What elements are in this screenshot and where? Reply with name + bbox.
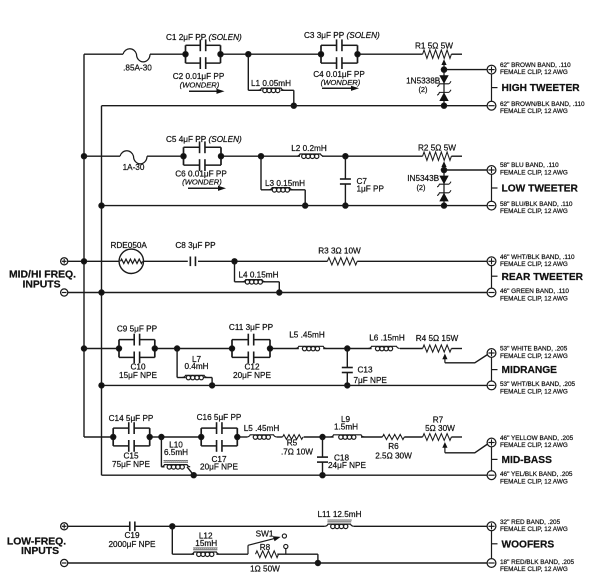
node C18 bottom — [320, 473, 325, 478]
wire row4 - line — [102, 384, 488, 386]
svg-text:24μF NPE: 24μF NPE — [328, 461, 366, 470]
wire R1 wiper to + terminal — [444, 69, 488, 71]
terminal - midrange — [487, 381, 496, 390]
svg-text:7μF NPE: 7μF NPE — [354, 376, 388, 385]
svg-text:46" YEL/BLK BAND, .205: 46" YEL/BLK BAND, .205 — [500, 471, 573, 478]
svg-text:58" BLU/BLK BAND, .110: 58" BLU/BLK BAND, .110 — [500, 201, 573, 208]
svg-text:(2): (2) — [416, 183, 425, 192]
wire mid/hi + input — [68, 260, 120, 262]
svg-text:WOOFERS: WOOFERS — [502, 539, 555, 550]
wire row1 + line — [84, 53, 462, 55]
wire row3 C8 to R3 — [198, 260, 327, 262]
label rear tweeter wires + — [500, 254, 575, 268]
wire R2 wiper to + terminal — [444, 169, 488, 171]
inductor L7 0.4mH — [177, 349, 212, 386]
capacitor C19 2000uF NPE — [108, 522, 156, 549]
resistor R8 1ohm 50W — [250, 543, 318, 574]
label MID/HI FREQ. INPUTS — [9, 270, 76, 291]
node row2 C7 tap — [343, 154, 348, 159]
capacitor C11 3uF PP — [229, 323, 274, 363]
svg-text:46" WHT/BLK BAND, .110: 46" WHT/BLK BAND, .110 — [500, 254, 575, 261]
svg-text:L2 0.2mH: L2 0.2mH — [291, 144, 327, 153]
svg-text:C2 0.01μF PP: C2 0.01μF PP — [173, 72, 225, 81]
capacitor C15 75uF NPE — [112, 451, 150, 468]
capacitor C7 1uF PP — [340, 156, 385, 205]
resistor R6 2.5ohm 30W — [375, 434, 412, 460]
resistor R2 5ohm 5W — [418, 143, 456, 160]
wire R4 wiper to + terminal — [445, 355, 488, 363]
inductor L1 0.05mH — [248, 54, 293, 105]
svg-text:R8: R8 — [260, 543, 271, 552]
lamp RDE050A — [110, 241, 147, 273]
svg-text:FEMALE CLIP, 12 AWG: FEMALE CLIP, 12 AWG — [500, 566, 568, 573]
node L1 bottom — [291, 103, 296, 108]
terminal + mid/hi input — [61, 258, 68, 265]
svg-text:R4 5Ω 15W: R4 5Ω 15W — [416, 334, 459, 343]
inductor L4 0.15mH — [235, 261, 280, 292]
svg-text:C8 3μF PP: C8 3μF PP — [175, 241, 216, 250]
node row4 L7 tap — [174, 346, 179, 351]
wire row5 - line — [102, 474, 488, 476]
resistor R4 5ohm 15W — [416, 334, 459, 352]
node row3 L4 tap — [232, 259, 237, 264]
inductor L6 .15mH — [368, 334, 404, 351]
svg-text:1A-30: 1A-30 — [123, 163, 145, 172]
wire row5 + line — [84, 436, 462, 438]
svg-text:C3 3μF PP (SOLEN): C3 3μF PP (SOLEN) — [304, 31, 380, 40]
wire row1 - line — [102, 105, 488, 107]
capacitor C17 20uF NPE — [200, 455, 238, 472]
node row4 C13 tap — [345, 346, 350, 351]
svg-text:C11 3μF PP: C11 3μF PP — [229, 323, 274, 332]
svg-text:FEMALE CLIP, 12 AWG: FEMALE CLIP, 12 AWG — [500, 170, 568, 177]
switch SW1 — [248, 530, 288, 555]
svg-text:HIGH TWEETER: HIGH TWEETER — [502, 83, 581, 94]
label WOOFERS — [492, 530, 555, 559]
label high tweeter wires - — [500, 101, 585, 115]
svg-text:6.5mH: 6.5mH — [164, 448, 188, 457]
capacitor C9 5uF PP — [116, 324, 157, 363]
node zener bottom row1 — [441, 103, 446, 108]
svg-text:L1 0.05mH: L1 0.05mH — [251, 79, 291, 88]
svg-text:0.4mH: 0.4mH — [184, 362, 208, 371]
wire row2 + line — [84, 155, 462, 157]
wire + bus vertical — [83, 54, 85, 437]
terminal + low-freq input — [61, 523, 68, 530]
label midrange wires - — [500, 381, 576, 395]
label low tweeter wires + — [500, 162, 568, 176]
svg-text:FEMALE CLIP, 12 AWG: FEMALE CLIP, 12 AWG — [500, 353, 568, 360]
resistor R5 .7ohm 10W — [281, 435, 313, 457]
label woofers wires - — [500, 559, 574, 573]
wiper arrow R1 — [441, 59, 446, 69]
label LOW-FREQ. INPUTS — [7, 536, 66, 557]
svg-text:1.5mH: 1.5mH — [334, 423, 358, 432]
capacitor C12 20uF NPE — [233, 362, 271, 379]
node row2 - bus tap — [99, 203, 104, 208]
capacitor C8 3uF PP — [175, 241, 216, 266]
node - bus row3 — [99, 290, 104, 295]
svg-text:FEMALE CLIP, 12 AWG: FEMALE CLIP, 12 AWG — [500, 208, 568, 215]
inductor L5 .45mH row5 — [244, 424, 280, 440]
capacitor C14 5uF PP — [109, 414, 154, 452]
label high tweeter wires + — [500, 62, 571, 76]
inductor L3 0.15mH — [261, 156, 305, 205]
svg-text:REAR TWEETER: REAR TWEETER — [502, 272, 584, 283]
node zener bottom row2 — [441, 203, 446, 208]
svg-text:15mH: 15mH — [195, 539, 217, 548]
inductor L9 1.5mH — [330, 415, 364, 439]
node C7 bottom — [343, 203, 348, 208]
terminal - high tweeter — [487, 101, 496, 110]
node L10 bottom — [191, 473, 196, 478]
capacitor C3 3uF PP (SOLEN) — [304, 31, 380, 69]
terminal - rear tweeter — [487, 288, 496, 297]
node row6 - junction — [315, 560, 320, 565]
svg-text:.85A-30: .85A-30 — [123, 64, 152, 73]
svg-text:32" RED BAND, .205: 32" RED BAND, .205 — [500, 519, 561, 526]
svg-text:46" YELLOW BAND, .205: 46" YELLOW BAND, .205 — [500, 435, 574, 442]
capacitor C18 24uF NPE — [317, 437, 366, 475]
svg-text:1μF PP: 1μF PP — [357, 185, 385, 194]
wiper arrow R2 — [441, 161, 446, 170]
svg-text:R2 5Ω 5W: R2 5Ω 5W — [418, 143, 456, 152]
node row5 C18 tap — [320, 434, 325, 439]
label rear tweeter wires - — [500, 288, 569, 302]
capacitor C10 15uF NPE — [119, 362, 157, 379]
resistor R7 5ohm 30W — [423, 415, 456, 440]
wire row2 - line — [102, 205, 488, 207]
svg-text:L5 .45mH: L5 .45mH — [289, 331, 325, 340]
svg-text:5Ω 30W: 5Ω 30W — [425, 424, 455, 433]
svg-text:18" RED/BLK BAND, .205: 18" RED/BLK BAND, .205 — [500, 559, 574, 566]
svg-text:2.5Ω 30W: 2.5Ω 30W — [375, 452, 412, 461]
label low tweeter wires - — [500, 201, 573, 215]
terminal - low-freq input — [61, 559, 68, 566]
label MID-BASS — [492, 447, 553, 472]
svg-text:FEMALE CLIP, 12 AWG: FEMALE CLIP, 12 AWG — [500, 442, 568, 449]
svg-text:58" BLU BAND, .110: 58" BLU BAND, .110 — [500, 162, 559, 169]
svg-text:FEMALE CLIP, 12 AWG: FEMALE CLIP, 12 AWG — [500, 526, 568, 533]
label woofers wires + — [500, 519, 568, 533]
node zener top row2 — [441, 167, 446, 172]
svg-text:L11 12.5mH: L11 12.5mH — [318, 510, 362, 519]
svg-text:C9 5μF PP: C9 5μF PP — [117, 324, 158, 333]
capacitor C2 0.01uF PP (WONDER) — [173, 72, 225, 94]
svg-text:46" GREEN BAND, .110: 46" GREEN BAND, .110 — [500, 288, 569, 295]
svg-text:62" BROWN BAND, .110: 62" BROWN BAND, .110 — [500, 62, 571, 69]
capacitor C16 5uF PP — [197, 413, 242, 452]
terminal + mid-bass — [487, 438, 496, 447]
wire row3 - line — [68, 292, 488, 294]
label mid-bass wires + — [500, 435, 574, 449]
svg-text:53" WHT/BLK BAND, .205: 53" WHT/BLK BAND, .205 — [500, 381, 576, 388]
svg-text:(WONDER): (WONDER) — [180, 81, 220, 90]
label mid-bass wires - — [500, 471, 573, 485]
svg-text:IN5343B: IN5343B — [407, 174, 439, 183]
svg-text:INPUTS: INPUTS — [21, 546, 59, 557]
svg-text:L3 0.15mH: L3 0.15mH — [265, 179, 305, 188]
terminal + midrange — [487, 349, 496, 358]
svg-text:62" BROWN/BLK BAND, .110: 62" BROWN/BLK BAND, .110 — [500, 101, 585, 108]
label HIGH TWEETER — [492, 74, 581, 102]
node + bus row3 — [81, 259, 86, 264]
capacitor C4 0.01uF PP (WONDER) — [313, 70, 365, 91]
svg-text:FEMALE CLIP, 12 AWG: FEMALE CLIP, 12 AWG — [500, 389, 568, 396]
inductor L10 6.5mH — [161, 437, 193, 475]
node row4 - bus tap — [99, 383, 104, 388]
inductor L11 12.5mH — [318, 510, 362, 529]
svg-text:C13: C13 — [358, 365, 373, 374]
wire row3 R3 to + terminal — [357, 260, 487, 262]
terminal + low tweeter — [487, 166, 496, 175]
svg-text:C16 5μF PP: C16 5μF PP — [197, 413, 242, 422]
svg-text:FEMALE CLIP, 12 AWG: FEMALE CLIP, 12 AWG — [500, 296, 568, 303]
svg-text:R6: R6 — [388, 442, 399, 451]
node zener top row1 — [441, 67, 446, 72]
capacitor C13 7uF NPE — [342, 349, 388, 386]
svg-text:20μF NPE: 20μF NPE — [233, 371, 271, 380]
svg-text:MID-BASS: MID-BASS — [502, 455, 553, 466]
svg-text:2000μF NPE: 2000μF NPE — [108, 540, 156, 549]
svg-text:SW1: SW1 — [256, 530, 274, 539]
svg-text:FEMALE CLIP, 12 AWG: FEMALE CLIP, 12 AWG — [500, 261, 568, 268]
capacitor C1 2uF PP (SOLEN) — [166, 33, 242, 69]
label MIDRANGE — [492, 357, 558, 381]
wiper arrow R7 — [442, 442, 447, 453]
label LOW TWEETER — [492, 174, 579, 202]
svg-text:C14 5μF PP: C14 5μF PP — [109, 414, 154, 423]
svg-text:1Ω 50W: 1Ω 50W — [250, 564, 280, 573]
wire - bus vertical — [101, 106, 103, 476]
svg-text:MIDRANGE: MIDRANGE — [502, 365, 558, 376]
wire row4 + line — [84, 348, 462, 350]
node row4 + bus tap — [81, 346, 86, 351]
inductor L12 15mH — [172, 526, 248, 556]
svg-text:C1 2μF PP (SOLEN): C1 2μF PP (SOLEN) — [166, 33, 242, 42]
terminal - low tweeter — [487, 201, 496, 210]
wiper arrow R4 — [442, 354, 447, 363]
node row5 L10 tap — [159, 434, 164, 439]
node C13 bottom — [345, 383, 350, 388]
resistor R1 5ohm 5W — [415, 41, 453, 58]
node L3 bottom — [303, 203, 308, 208]
svg-text:R3 3Ω 10W: R3 3Ω 10W — [318, 247, 361, 256]
terminal + woofers — [487, 522, 496, 531]
terminal - mid-bass — [487, 471, 496, 480]
terminal + rear tweeter — [487, 257, 496, 266]
wire row6 + line — [68, 525, 488, 527]
svg-text:.7Ω 10W: .7Ω 10W — [281, 447, 313, 456]
svg-text:20μF NPE: 20μF NPE — [200, 462, 238, 471]
svg-text:75μF NPE: 75μF NPE — [112, 460, 150, 469]
svg-text:RDE050A: RDE050A — [110, 241, 147, 250]
svg-text:15μF NPE: 15μF NPE — [119, 371, 157, 380]
svg-text:R5: R5 — [287, 438, 298, 447]
fuse F2 1A-30 — [120, 151, 147, 172]
node row1 L1 tap — [246, 52, 251, 57]
diode D1 1N5338B (2) — [406, 70, 451, 106]
inductor L5 .45mH row4 — [289, 331, 326, 351]
svg-text:R1 5Ω 5W: R1 5Ω 5W — [415, 41, 453, 50]
node L7 bottom — [209, 383, 214, 388]
resistor R3 3ohm 10W — [318, 247, 361, 265]
node R1 wiper junction — [441, 67, 446, 72]
diode D2 IN5343B (2) — [407, 170, 451, 206]
node row2 + bus tap — [81, 154, 86, 159]
capacitor C5 4uF PP (SOLEN) — [166, 135, 242, 171]
label REAR TWEETER — [492, 265, 584, 288]
wire row3 RDE to C8 — [144, 260, 188, 262]
svg-text:FEMALE CLIP, 12 AWG: FEMALE CLIP, 12 AWG — [500, 479, 568, 486]
fuse F1 .85A-30 — [123, 49, 152, 73]
wire row6 - line — [68, 562, 488, 564]
terminal - woofers — [487, 559, 496, 568]
svg-text:L6 .15mH: L6 .15mH — [369, 334, 405, 343]
svg-text:(WONDER): (WONDER) — [321, 78, 361, 87]
svg-text:C5 4μF PP (SOLEN): C5 4μF PP (SOLEN) — [166, 135, 242, 144]
svg-text:53" WHITE BAND, .205: 53" WHITE BAND, .205 — [500, 345, 568, 352]
svg-text:FEMALE CLIP, 12 AWG: FEMALE CLIP, 12 AWG — [500, 108, 568, 115]
node R2 wiper junction — [441, 167, 446, 172]
capacitor C6 0.01uF PP (WONDER) — [175, 170, 227, 191]
terminal - mid/hi input — [61, 289, 68, 296]
terminal + high tweeter — [487, 65, 496, 74]
svg-text:L4 0.15mH: L4 0.15mH — [238, 271, 278, 280]
svg-text:(WONDER): (WONDER) — [182, 178, 222, 187]
svg-text:L5 .45mH: L5 .45mH — [244, 424, 280, 433]
svg-text:FEMALE CLIP, 12 AWG: FEMALE CLIP, 12 AWG — [500, 69, 568, 76]
svg-text:(2): (2) — [418, 85, 427, 94]
node L4 bottom — [277, 290, 282, 295]
node row6 L12 tap — [170, 524, 175, 529]
svg-text:LOW TWEETER: LOW TWEETER — [502, 184, 579, 195]
wire R8 to - line — [317, 554, 319, 563]
node row2 L3 tap — [258, 154, 263, 159]
inductor L2 0.2mH — [291, 144, 327, 159]
svg-text:INPUTS: INPUTS — [22, 279, 60, 290]
wire R7 wiper to + terminal — [445, 444, 488, 453]
label midrange wires + — [500, 345, 568, 359]
